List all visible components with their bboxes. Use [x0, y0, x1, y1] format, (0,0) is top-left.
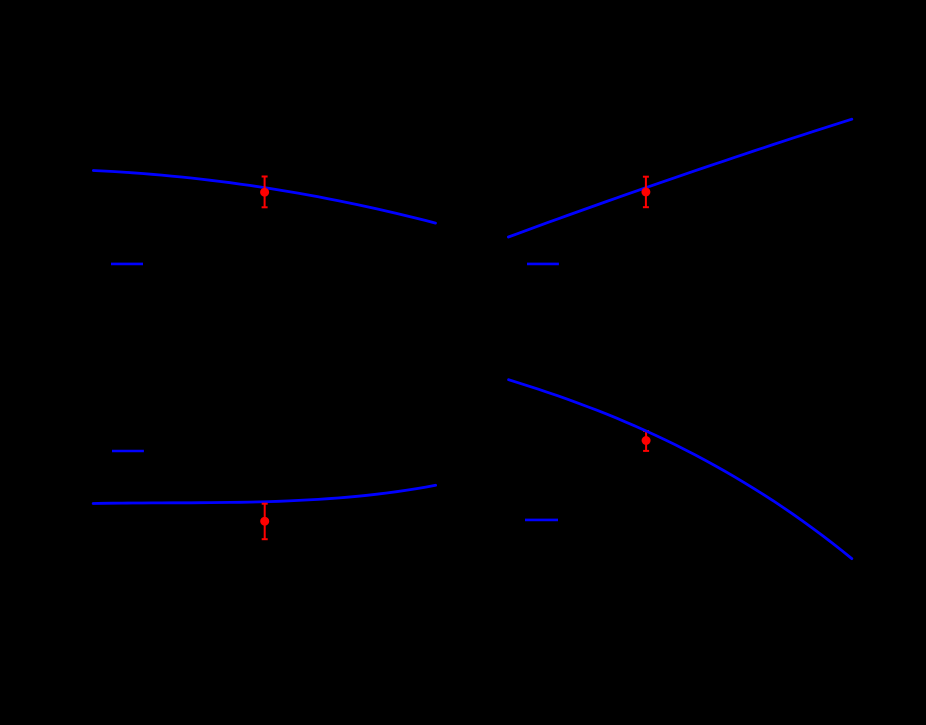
bottom-right data point [642, 431, 651, 451]
top-left legend handle line [111, 263, 143, 266]
top-right data point [641, 177, 650, 208]
bottom-left legend handle line [112, 450, 144, 453]
top-right model curve [508, 119, 851, 237]
top-left model curve [93, 171, 435, 224]
top-right legend handle line [527, 263, 559, 266]
bottom-left data point [260, 504, 269, 540]
bottom-left model curve [93, 485, 435, 503]
bottom-right legend handle line [525, 519, 558, 522]
top-left data point [260, 177, 269, 208]
bottom-right model curve [509, 380, 852, 559]
